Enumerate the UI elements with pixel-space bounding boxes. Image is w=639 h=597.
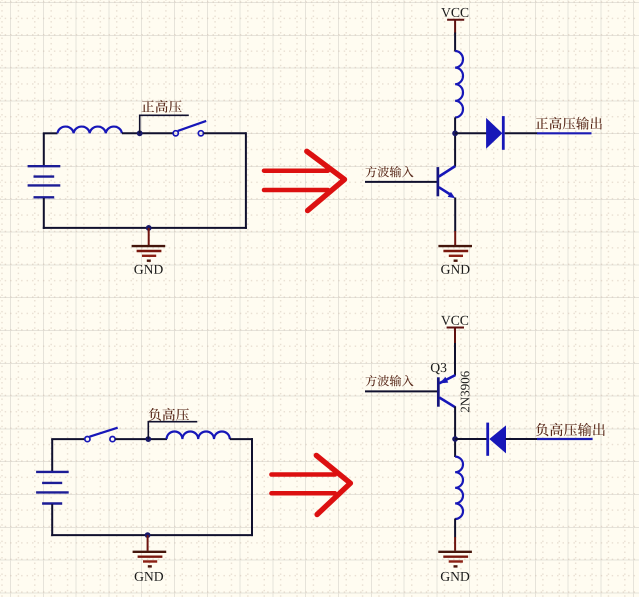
text GND (top-right) [441,265,469,274]
wire: net label stub for 负高压 [148,422,197,439]
wire: net label stub for 正高压 [140,115,189,133]
inductor L3 [167,432,230,440]
wire: switch S1 to top-right corner of loop [204,132,246,134]
wire: bottom-left loop right vertical [251,438,253,536]
wire: top-left loop top segment to inductor [43,132,58,134]
text Q3 designator [431,363,447,374]
inductor L4 (vertical) [455,457,463,519]
net label 正高压 [141,100,184,117]
arrow symbol (bottom, red double-line arrow) [271,455,350,514]
junction node at GND (top-left) [146,225,152,231]
ground symbol GND (bottom-right) [438,537,472,566]
junction node 负高压 [145,436,151,442]
net label 正高压输出 [535,117,605,134]
wire: base input of Q1 [365,181,437,183]
wire: emitter of Q1 down [454,198,456,232]
net label 方波输入 (top) [365,166,416,181]
junction node 正高压 [137,130,143,136]
wire: top-left loop right vertical [245,132,247,229]
text GND (bottom-right) [441,572,469,581]
power port VCC (top) [447,20,464,34]
switch S2 [85,428,118,442]
wire: output net segment under label 负高压输出 [537,438,593,440]
battery B1 [28,166,61,197]
wire: junction to diode D2 cathode [455,438,487,440]
transistor Q3 (PNP 2N3906) [437,375,455,407]
wire: bottom-left loop top segment to switch S2 [51,438,84,440]
text GND (bottom-left) [135,572,163,581]
ground symbol GND (bottom-left) [133,535,167,566]
net label 负高压输出 [535,423,608,440]
wire: collector of Q3 down to junction [454,407,456,458]
text 2N3906 part value (rotated) [461,371,470,412]
wire: top-left loop bottom segment [43,227,247,229]
junction node (top-right, diode tap) [452,130,458,136]
net label 负高压 [148,408,191,425]
diode D2 [486,423,506,456]
wire: inductor L1 to junction and switch S1 [122,132,173,134]
wire: inductor L3 to top-right corner [230,438,253,440]
ground symbol GND (top-left) [132,228,166,261]
wire: switch S2 to junction [115,438,167,440]
wire: base input of Q3 [365,390,437,392]
net label 方波输入 (bottom) [365,375,416,390]
wire: inductor L4 to ground [454,519,456,538]
wire: diode D1 cathode to output [505,132,538,134]
wire: diode D2 anode to output [506,438,538,440]
wire: inductor L2 to collector of Q1 [454,117,456,166]
wire: bottom-left loop bottom segment [51,534,253,536]
junction node (bottom-right, diode tap) [452,436,458,442]
junction node at GND (bottom-left) [145,532,151,538]
wire: junction to diode D1 anode [455,132,486,134]
text VCC (bottom) [441,316,468,325]
ground symbol GND (top-right) [438,231,472,261]
text VCC (top) [441,8,468,17]
wire: output net segment under label 正高压输出 [537,132,592,134]
wire: bottom-left loop left vertical (battery bottom lead) [51,504,53,536]
inductor L2 (vertical) [455,51,463,117]
wire: top-left loop left vertical (battery bottom lead) [43,198,45,229]
wire: VCC to emitter of Q3 [454,343,456,376]
inductor L1 [58,127,122,134]
wire: top-left loop left vertical (battery top lead) [43,133,45,165]
diode D1 [486,116,505,150]
switch S1 [173,121,206,136]
transistor Q1 (NPN) [437,166,456,198]
text GND (top-left) [134,265,162,274]
wire: bottom-left loop left vertical (battery top lead) [51,439,53,471]
battery B2 [36,472,69,504]
wire: VCC to inductor L2 [454,33,456,52]
arrow symbol (top, red double-line arrow) [264,151,345,210]
power port VCC (bottom) [447,328,464,345]
